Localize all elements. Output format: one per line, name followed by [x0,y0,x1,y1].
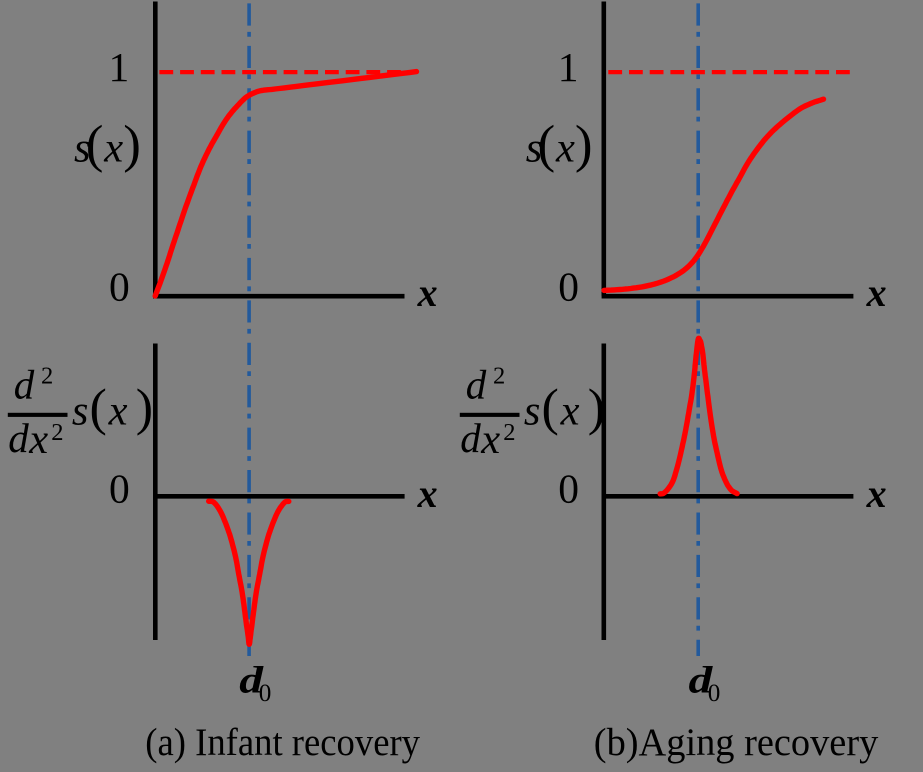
svg-text:0: 0 [259,680,272,707]
svg-text:0: 0 [558,465,579,511]
svg-text:2: 2 [51,419,63,446]
svg-text:2: 2 [503,419,515,446]
svg-text:s: s [72,388,89,435]
svg-text:1: 1 [109,44,130,90]
svg-text:x: x [103,124,123,171]
svg-text:(: ( [86,116,104,174]
svg-text:s: s [524,388,541,435]
svg-text:d: d [14,361,35,407]
svg-text:1: 1 [558,44,579,90]
svg-text:0: 0 [708,680,721,707]
svg-text:x: x [560,388,580,435]
svg-text:(: ( [538,116,556,174]
svg-text:): ) [123,116,141,174]
svg-text:d: d [460,415,481,461]
svg-text:(: ( [542,379,559,436]
svg-text:x: x [866,270,887,315]
svg-text:0: 0 [109,465,130,511]
svg-text:x: x [555,124,575,171]
svg-text:x: x [866,471,887,516]
svg-text:2: 2 [41,363,53,390]
svg-text:0: 0 [558,264,579,310]
svg-text:x: x [417,471,438,516]
svg-text:(: ( [90,379,107,436]
svg-text:d: d [466,361,487,407]
svg-text:x: x [108,388,128,435]
svg-text:x: x [28,416,48,463]
svg-text:): ) [588,379,605,436]
svg-text:2: 2 [493,363,505,390]
svg-text:0: 0 [109,264,130,310]
svg-text:x: x [417,270,438,315]
svg-text:(a) Infant recovery: (a) Infant recovery [145,720,420,764]
svg-text:): ) [136,379,153,436]
svg-text:(b)Aging recovery: (b)Aging recovery [594,720,879,764]
svg-text:x: x [480,416,500,463]
svg-text:d: d [8,415,29,461]
svg-text:): ) [575,116,593,174]
